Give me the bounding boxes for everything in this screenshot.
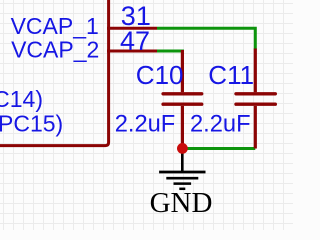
svg-text:VCAP_1: VCAP_1 xyxy=(11,13,99,39)
ground symbol xyxy=(159,149,205,189)
wire C11 bottom to junction xyxy=(182,147,255,150)
pin 47 stub (VCAP_2) xyxy=(107,50,157,53)
svg-text:C11: C11 xyxy=(208,60,254,90)
wire net VCAP_2 from pin 47 to C10 xyxy=(157,50,184,53)
svg-text:GND: GND xyxy=(150,187,213,219)
capacitor C11 xyxy=(236,49,275,149)
svg-text:47: 47 xyxy=(120,26,150,56)
IC body outline (right and bottom edge of part) xyxy=(0,0,109,146)
pin 31 stub (VCAP_1) xyxy=(107,27,157,30)
svg-text:2.2uF: 2.2uF xyxy=(190,112,251,138)
wire net VCAP_1 from pin 31 to C11 xyxy=(157,28,255,49)
svg-text:2.2uF: 2.2uF xyxy=(115,111,176,137)
svg-text:PC14): PC14) xyxy=(0,86,43,112)
svg-text:C10: C10 xyxy=(136,60,184,90)
svg-text:PC15): PC15) xyxy=(0,111,63,137)
junction dot xyxy=(177,143,188,154)
capacitor C10 xyxy=(163,50,202,149)
svg-text:VCAP_2: VCAP_2 xyxy=(11,37,99,63)
